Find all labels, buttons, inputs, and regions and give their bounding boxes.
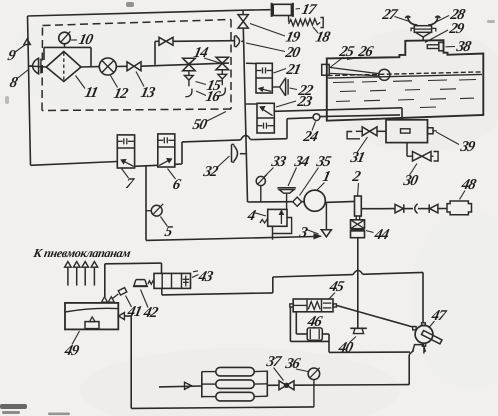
wire compressor to valve 13	[116, 65, 127, 67]
drain funnel 16	[221, 70, 223, 75]
spring 18	[288, 16, 290, 22]
pressure gauge 5	[151, 205, 162, 216]
wire control line to selector 47	[422, 272, 424, 322]
drain sink 3	[325, 203, 327, 230]
fitting 39	[428, 128, 434, 134]
svg-text:К пневмоклапанам: К пневмоклапанам	[31, 246, 132, 260]
filler funnel 34	[277, 187, 295, 189]
intake arrow 9	[24, 39, 31, 45]
junction 24	[313, 114, 320, 121]
breather 27 28	[422, 37, 424, 41]
strainer 35	[293, 197, 302, 206]
pressure switch 6	[158, 134, 175, 167]
wire riser corner to pump suction line	[248, 201, 293, 203]
pump 1	[302, 201, 304, 203]
pressure gauge 33	[256, 176, 265, 185]
drain hook below 16	[219, 88, 226, 96]
wire unloader valve to silencer 20	[173, 40, 234, 43]
pilot valve 40	[350, 327, 367, 329]
wire receiver to bottom main	[124, 315, 131, 317]
pressure valve 19	[242, 10, 244, 14]
wire control line with hop	[273, 275, 353, 277]
wire main vertical riser	[243, 28, 247, 202]
wire bottom border of compressor unit frame	[31, 162, 118, 166]
flexible coupling	[415, 204, 418, 214]
drain valve 14a	[183, 58, 196, 64]
check valve b	[428, 204, 430, 213]
wire top line to cylinder 17	[243, 9, 270, 12]
wire drop to gauge 5	[145, 166, 147, 241]
compressor 12	[99, 58, 116, 75]
cylinder 17	[271, 3, 273, 17]
silencer 20	[234, 36, 236, 47]
wire scavenge line with crossover hop	[135, 165, 158, 166]
selector valve 47	[415, 325, 433, 343]
wire accumulators to selector 47	[294, 384, 409, 387]
shutoff valve 37	[267, 384, 279, 386]
nozzle 41	[118, 288, 127, 296]
pressure gauge 36	[308, 368, 320, 380]
valve block 43	[154, 273, 191, 288]
drain funnel 15	[188, 71, 190, 76]
wire intake to filter	[29, 66, 46, 67]
vent silencer 22	[272, 86, 279, 88]
level transmitter 25	[322, 64, 330, 75]
drain valve 30	[406, 143, 408, 157]
control valve 45	[290, 304, 293, 307]
filter 2	[355, 196, 362, 216]
unloader valve	[155, 40, 159, 42]
wire stub to pressure switch 21	[246, 62, 256, 64]
wire branch riser to unloader valve	[154, 41, 156, 64]
drain valve 31	[377, 130, 386, 132]
dashed boundary 50 of preparation unit	[43, 20, 232, 26]
pressure gauge 10	[59, 32, 71, 44]
wire 45 left loop	[289, 307, 291, 341]
drain valve 14b	[216, 57, 229, 63]
intake silencer 8	[29, 59, 38, 74]
silencer 32	[231, 144, 233, 162]
wire 45 to selector 47	[336, 305, 412, 327]
outlet arrows to pneumovalves	[67, 267, 69, 285]
drain arrowhead	[314, 234, 321, 239]
solenoid 42	[136, 279, 145, 281]
pressure switch 7	[117, 135, 134, 168]
wire top border of compressor unit frame	[28, 10, 244, 16]
wire pump outlet	[325, 201, 354, 202]
wire 46 to selector foot	[322, 333, 329, 335]
condensate collector below reservoir	[386, 120, 428, 143]
inlet funnels on receiver 49	[102, 297, 108, 302]
valve 13	[127, 62, 134, 71]
valve block 44	[351, 220, 365, 229]
receiver 49	[65, 303, 118, 330]
wire drain line	[146, 237, 315, 241]
slave cylinder 46	[307, 328, 322, 340]
liquid level hatching	[328, 72, 482, 76]
vent fitting 38	[427, 45, 439, 49]
relief valve 4	[268, 209, 287, 226]
accumulator bottle a	[216, 367, 254, 376]
wire pressure switch 23 to reservoir	[274, 108, 402, 112]
wire pump line to check valves	[361, 208, 395, 210]
drain hook below 15	[185, 89, 192, 97]
outlet funnel on receiver right	[119, 313, 125, 320]
pressure switch 23	[246, 103, 257, 105]
float	[379, 69, 390, 80]
pressure switch 21	[256, 63, 272, 93]
check valve a	[395, 204, 403, 213]
connector 48	[447, 201, 472, 215]
wire inlet to accumulators	[159, 385, 202, 388]
accumulator bottle c	[216, 392, 254, 401]
wire main air line to drain valves	[141, 63, 229, 66]
filter housing frame	[44, 46, 91, 48]
wire left border of compressor unit frame	[28, 16, 31, 165]
filter 11	[46, 52, 81, 82]
wire from 43 to control line	[161, 288, 163, 295]
check valve at accumulator inlet	[185, 382, 192, 389]
accumulator manifold	[201, 372, 203, 398]
scan smudges	[0, 404, 27, 409]
wire valve 44 to pilot 40	[357, 238, 359, 328]
accumulator bottle b	[216, 380, 254, 389]
wire 45 to slave cylinder 46	[295, 312, 297, 334]
wire filter to compressor	[81, 66, 99, 68]
wire riser from junction to valve block 43	[104, 264, 106, 297]
reservoir 26 shell	[327, 40, 484, 121]
